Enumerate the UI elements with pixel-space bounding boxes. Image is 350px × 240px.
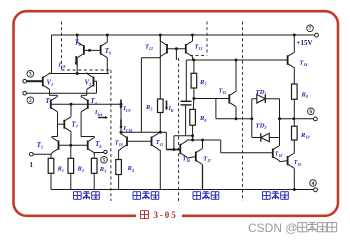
svg-text:IC10: IC10 xyxy=(123,125,133,133)
svg-text:T14: T14 xyxy=(300,60,308,68)
svg-text:R9: R9 xyxy=(301,92,308,100)
svg-text:+15V: +15V xyxy=(297,39,313,47)
svg-text:T17: T17 xyxy=(203,155,212,163)
svg-text:TD2: TD2 xyxy=(256,122,267,130)
svg-text:R8: R8 xyxy=(199,115,206,123)
svg-text:V1: V1 xyxy=(47,80,54,88)
svg-text:3: 3 xyxy=(29,72,32,78)
svg-text:7: 7 xyxy=(309,26,312,32)
svg-text:T11: T11 xyxy=(156,139,164,147)
svg-text:IC9: IC9 xyxy=(123,105,131,113)
svg-text:R10: R10 xyxy=(300,132,309,140)
svg-text:T5: T5 xyxy=(37,142,43,150)
svg-text:T7: T7 xyxy=(72,121,79,129)
svg-text:CSDN @: CSDN @ xyxy=(248,221,298,235)
svg-text:T18: T18 xyxy=(275,152,283,159)
svg-text:1: 1 xyxy=(30,161,34,169)
svg-text:3-05: 3-05 xyxy=(154,210,178,220)
svg-text:I3e4: I3e4 xyxy=(94,110,103,117)
svg-text:T6: T6 xyxy=(95,141,102,149)
svg-text:IR: IR xyxy=(168,105,174,113)
svg-text:T10: T10 xyxy=(115,140,123,148)
svg-text:T12: T12 xyxy=(145,44,153,52)
svg-text:R1: R1 xyxy=(57,166,64,174)
svg-text:R5: R5 xyxy=(145,104,152,112)
svg-text:6: 6 xyxy=(310,109,313,115)
svg-text:T3: T3 xyxy=(46,98,52,106)
svg-text:T9: T9 xyxy=(105,48,112,56)
svg-text:T15: T15 xyxy=(219,88,227,96)
svg-text:R7: R7 xyxy=(199,79,207,87)
svg-text:T19: T19 xyxy=(294,160,302,167)
svg-text:TD1: TD1 xyxy=(256,89,267,97)
svg-text:T13: T13 xyxy=(195,44,203,52)
svg-text:R3: R3 xyxy=(99,166,106,174)
svg-text:R2: R2 xyxy=(77,166,84,174)
svg-text:T4: T4 xyxy=(91,98,97,106)
svg-text:4: 4 xyxy=(312,181,315,187)
svg-text:2: 2 xyxy=(29,98,32,104)
svg-text:R4: R4 xyxy=(127,165,134,173)
svg-text:5: 5 xyxy=(103,158,106,164)
svg-text:V2: V2 xyxy=(85,79,92,87)
svg-text:T8: T8 xyxy=(75,39,82,47)
